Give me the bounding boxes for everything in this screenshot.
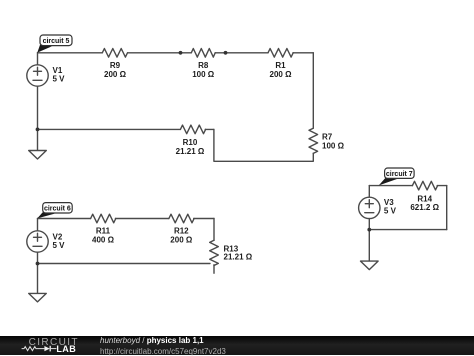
label callout circuit 5 xyxy=(37,35,72,53)
svg-text:R9: R9 xyxy=(110,61,121,70)
resistor R8 xyxy=(191,49,215,58)
svg-text:LAB: LAB xyxy=(56,344,76,354)
wire V2 bottom to ground xyxy=(37,252,39,293)
svg-text:R11: R11 xyxy=(96,227,111,236)
wire circuit6 bottom rail xyxy=(38,263,211,265)
voltage source V3 xyxy=(359,197,380,218)
svg-text:200 Ω: 200 Ω xyxy=(104,70,127,79)
label R7 xyxy=(322,133,345,151)
wire circuit5 right rail xyxy=(312,53,314,128)
svg-text:R10: R10 xyxy=(183,138,198,147)
label R14 xyxy=(410,195,439,212)
label callout circuit 6 xyxy=(37,203,72,219)
svg-text:621.2 Ω: 621.2 Ω xyxy=(410,203,439,212)
wire V3 bottom to ground xyxy=(368,219,370,261)
label R1 xyxy=(270,61,293,79)
resistor R10 xyxy=(180,125,205,134)
wire V1 top stub xyxy=(37,53,39,65)
footer bar xyxy=(0,336,474,355)
wire V2 top stub xyxy=(37,219,39,231)
svg-text:5 V: 5 V xyxy=(53,75,66,84)
voltage source V1 xyxy=(27,65,48,86)
label R13 xyxy=(224,244,253,261)
node dot circuit5 bottom xyxy=(36,127,40,131)
voltage source V2 xyxy=(27,231,48,252)
svg-text:21.21 Ω: 21.21 Ω xyxy=(176,147,205,156)
svg-text:R8: R8 xyxy=(198,61,209,70)
label R12 xyxy=(170,227,193,245)
svg-text:5 V: 5 V xyxy=(53,241,66,250)
wire circuit6 top rail xyxy=(38,218,215,220)
resistor R9 xyxy=(102,49,127,58)
resistor R13 xyxy=(210,240,219,273)
label R11 xyxy=(92,227,115,245)
wire circuit7 right rail xyxy=(446,186,448,230)
label R9 xyxy=(104,61,127,79)
svg-text:circuit 7: circuit 7 xyxy=(386,171,413,178)
ground circuit7 xyxy=(361,261,379,270)
CircuitLab logo xyxy=(15,336,100,355)
svg-text:21.21 Ω: 21.21 Ω xyxy=(224,252,253,261)
wire circuit7 top rail xyxy=(369,185,446,187)
svg-text:100 Ω: 100 Ω xyxy=(192,70,215,79)
label R10 xyxy=(176,138,205,156)
ground circuit6 xyxy=(29,293,47,302)
node dot circuit7 bottom xyxy=(367,228,371,232)
wire circuit5 bottom right xyxy=(214,129,313,161)
label callout circuit 7 xyxy=(379,168,414,185)
resistor R7 xyxy=(309,128,318,153)
label V2 xyxy=(53,233,66,251)
svg-text:5 V: 5 V xyxy=(384,207,397,216)
svg-text:circuit 5: circuit 5 xyxy=(43,38,70,45)
wire V1 bottom to ground xyxy=(37,86,39,150)
node dot R8 left xyxy=(179,51,183,55)
node dot circuit6 bottom xyxy=(36,262,40,266)
wire circuit5 top rail xyxy=(38,52,314,54)
label R8 xyxy=(192,61,215,79)
svg-text:R1: R1 xyxy=(275,61,286,70)
svg-text:200 Ω: 200 Ω xyxy=(270,70,293,79)
label V1 xyxy=(53,66,66,84)
resistor R1 xyxy=(268,49,293,58)
svg-text:200 Ω: 200 Ω xyxy=(170,236,193,245)
ground circuit5 xyxy=(29,151,47,160)
svg-text:circuit 6: circuit 6 xyxy=(44,206,71,213)
svg-text:100 Ω: 100 Ω xyxy=(322,142,345,151)
svg-text:R7: R7 xyxy=(322,133,333,142)
wire circuit7 bottom rail xyxy=(369,229,446,231)
label V3 xyxy=(384,198,397,216)
svg-text:R12: R12 xyxy=(174,227,189,236)
footer text xyxy=(100,337,226,356)
wire circuit6 right rail xyxy=(213,219,215,241)
wire circuit5 bottom left xyxy=(38,128,214,130)
svg-text:400 Ω: 400 Ω xyxy=(92,236,115,245)
node dot R8 right xyxy=(224,51,228,55)
resistor R14 xyxy=(412,181,437,190)
resistor R12 xyxy=(169,214,194,223)
wire V3 top stub xyxy=(368,186,370,198)
resistor R11 xyxy=(91,214,116,223)
